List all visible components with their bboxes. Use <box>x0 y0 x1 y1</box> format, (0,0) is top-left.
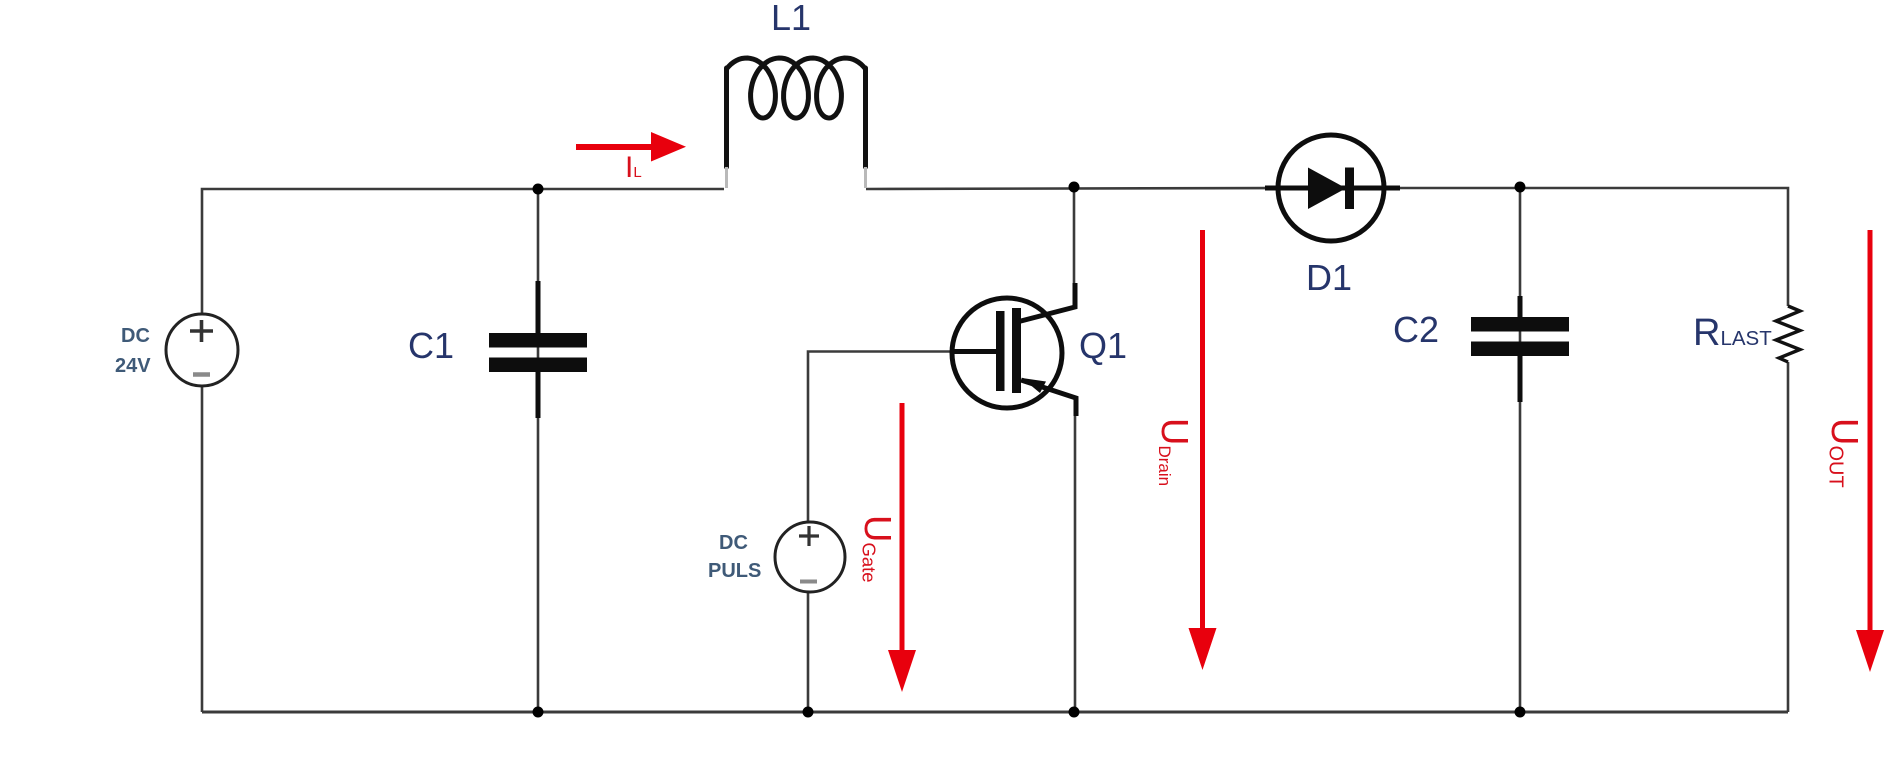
wire bottom rail <box>202 711 1788 714</box>
transistor Q1 <box>950 283 1076 416</box>
svg-text:24V: 24V <box>115 355 151 377</box>
dc source DC PULS <box>775 522 845 592</box>
svg-text:C2: C2 <box>1393 309 1439 350</box>
node Q1 source bottom <box>1069 707 1080 718</box>
capacitor C1 <box>489 281 587 418</box>
node Q1 drain top <box>1069 182 1080 193</box>
svg-text:DC: DC <box>121 325 150 347</box>
resistor RLAST <box>1776 306 1800 362</box>
wire gate to DC PULS <box>808 352 952 523</box>
capacitor C2 <box>1471 296 1569 402</box>
wire DC PULS bottom <box>807 592 810 712</box>
wire C1 branch <box>537 189 540 712</box>
wire Q1 source vertical <box>1074 415 1077 712</box>
inductor L1 <box>727 58 866 167</box>
wire left vertical upper and top rail left <box>202 189 724 314</box>
wire C2 branch <box>1519 187 1522 712</box>
dc source V1 24V <box>166 314 238 386</box>
node puls bottom <box>803 707 814 718</box>
node C1 top <box>533 184 544 195</box>
wire right vertical lower <box>1787 362 1790 712</box>
svg-text:D1: D1 <box>1306 257 1352 298</box>
svg-text:L1: L1 <box>771 0 811 38</box>
arrow UOut <box>1856 230 1884 672</box>
arrow IL <box>576 132 686 162</box>
arrow UDrain <box>1189 230 1217 670</box>
node C1 bottom <box>533 707 544 718</box>
wire Q1 drain vertical <box>1073 187 1076 285</box>
wire top rail middle (L1 to D1) <box>866 188 1278 189</box>
svg-text:PULS: PULS <box>708 560 761 582</box>
svg-text:C1: C1 <box>408 325 454 366</box>
diode D1 <box>1265 135 1400 241</box>
wire left vertical lower <box>201 386 204 712</box>
svg-text:Q1: Q1 <box>1079 325 1127 366</box>
node C2 top <box>1515 182 1526 193</box>
node C2 bottom <box>1515 707 1526 718</box>
arrow UGate <box>888 403 916 692</box>
wire top rail right (D1 to corner) <box>1385 188 1788 306</box>
svg-text:DC: DC <box>719 532 748 554</box>
L1 pin stubs <box>725 167 728 188</box>
